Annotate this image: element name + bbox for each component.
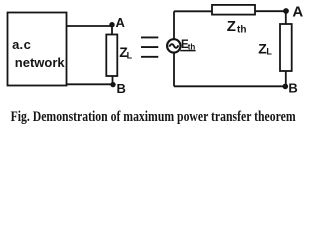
svg-text:th: th xyxy=(237,25,246,36)
svg-text:.: . xyxy=(20,37,24,52)
svg-text:L: L xyxy=(266,47,272,57)
svg-text:th: th xyxy=(188,42,196,51)
svg-text:c: c xyxy=(24,37,31,52)
svg-text:A: A xyxy=(292,4,303,21)
svg-text:network: network xyxy=(15,55,66,70)
svg-text:L: L xyxy=(127,51,133,61)
svg-text:Fig. Demonstration of maximum: Fig. Demonstration of maximum power tran… xyxy=(11,109,296,125)
svg-text:B: B xyxy=(117,81,126,96)
svg-text:A: A xyxy=(116,15,126,30)
svg-text:B: B xyxy=(288,81,297,96)
svg-text:Z: Z xyxy=(227,18,236,35)
